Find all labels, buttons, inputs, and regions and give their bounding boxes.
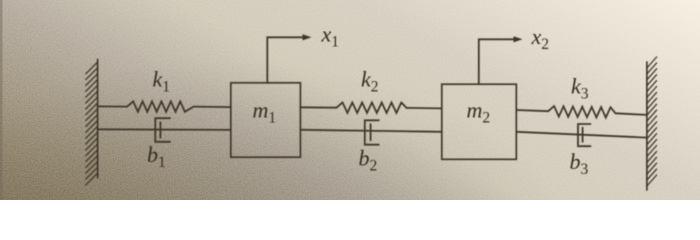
arrow x1 (267, 34, 311, 83)
damper b3 (578, 124, 591, 146)
mass m1 (231, 83, 301, 157)
wire wall to spring k1 (98, 105, 128, 107)
wire mass m1 to spring k2 (300, 106, 336, 108)
wire wall to mass m1 (damper rail) (98, 128, 231, 131)
spring k2 (337, 103, 407, 113)
damper b2 (365, 120, 379, 144)
wire spring k3 to wall (616, 113, 647, 115)
wire mass m2 to wall (damper rail) (516, 132, 647, 138)
scan edge left (0, 0, 3, 200)
left wall (86, 60, 98, 185)
right wall (647, 57, 657, 190)
spring k3 (548, 106, 615, 118)
wire spring k1 to mass m1 (194, 106, 231, 109)
wire spring k2 to mass m2 (407, 107, 442, 110)
arrow x2 (479, 36, 523, 84)
damper b1 (155, 118, 170, 142)
wire mass m2 to spring k3 (516, 110, 548, 111)
wire mass m1 to mass m2 (damper rail) (300, 130, 441, 132)
spring k1 (127, 101, 193, 111)
mass m2 (442, 84, 517, 159)
